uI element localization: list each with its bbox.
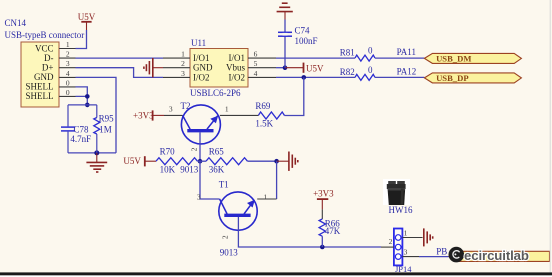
svg-text:2: 2 <box>389 237 393 246</box>
U11 pin stubs left <box>163 58 190 77</box>
svg-text:U5V: U5V <box>306 63 324 73</box>
svg-text:36K: 36K <box>209 164 225 174</box>
svg-text:4: 4 <box>66 69 70 78</box>
svg-text:1: 1 <box>404 228 408 237</box>
svg-text:U5V: U5V <box>78 12 96 22</box>
port USB_DM <box>424 53 521 63</box>
svg-text:C78: C78 <box>74 124 90 134</box>
wire shell RC bottom node <box>68 152 116 154</box>
port PB <box>449 251 550 261</box>
svg-text:+3V3: +3V3 <box>313 189 334 199</box>
IC U11 body <box>190 49 248 88</box>
header JP14 body <box>394 229 403 266</box>
designator T2 <box>181 101 191 111</box>
wire Vbus net <box>276 67 285 69</box>
svg-text:1: 1 <box>181 50 185 59</box>
wire T1 pin3 riser <box>200 161 220 199</box>
watermark logo <box>449 247 465 263</box>
svg-text:2: 2 <box>190 147 199 151</box>
comment USBLC6-2P6 <box>190 88 241 98</box>
svg-text:I/O2: I/O2 <box>229 72 246 82</box>
svg-text:PA12: PA12 <box>397 67 417 77</box>
transistor T2 pin1 stub <box>220 114 258 116</box>
wire GND net <box>76 77 117 152</box>
JP14 pin number 3 <box>404 247 408 256</box>
resistor R81 <box>340 46 375 62</box>
watermark text ecircuitlab <box>464 248 529 263</box>
wire shell RC top node <box>68 104 97 106</box>
ground earth bottom-left <box>86 153 107 172</box>
svg-text:GND: GND <box>193 63 213 73</box>
CN14 pin stubs <box>59 49 76 97</box>
svg-text:100nF: 100nF <box>295 36 318 46</box>
node R66 junction <box>320 245 325 250</box>
ground earth rotated at U11 GND <box>144 58 163 77</box>
svg-text:USB_DM: USB_DM <box>436 53 471 63</box>
wire USB_DP net left <box>276 76 355 78</box>
ground earth rotated right at R65 <box>277 152 298 171</box>
designator CN14 <box>5 18 27 28</box>
U11 pin stubs right <box>248 58 276 77</box>
JP14 pin1 stub <box>402 237 422 239</box>
svg-text:2: 2 <box>221 235 230 239</box>
svg-text:R81: R81 <box>340 48 355 58</box>
svg-text:SHELL: SHELL <box>26 82 54 92</box>
transistor T1 <box>219 192 257 230</box>
svg-text:I/O2: I/O2 <box>193 72 210 82</box>
wire pullup riser <box>285 77 304 115</box>
svg-text:D-: D- <box>44 53 54 63</box>
svg-text:C74: C74 <box>295 25 311 35</box>
wire R66 bottom <box>321 236 323 247</box>
svg-text:1: 1 <box>263 193 267 202</box>
JP14 pin3 stub <box>402 256 419 258</box>
T1 pin number 2 (rotated) <box>221 235 230 239</box>
svg-text:3: 3 <box>181 69 185 78</box>
wire base node to R65 <box>198 160 207 162</box>
port USB_DP <box>424 73 521 83</box>
svg-text:0: 0 <box>368 65 373 75</box>
T1 pin number 3 <box>197 193 201 202</box>
wire D+ net <box>76 68 164 78</box>
svg-text:2: 2 <box>181 59 185 68</box>
svg-text:HW16: HW16 <box>389 205 413 215</box>
svg-text:R69: R69 <box>255 101 271 111</box>
comment 9013 for T2 <box>180 164 199 174</box>
transistor T2 <box>181 105 220 144</box>
comment USB-typeB connector <box>5 30 85 40</box>
designator U11 <box>191 38 206 48</box>
svg-text:I/O1: I/O1 <box>193 53 210 63</box>
wire T1 base run <box>238 217 381 247</box>
JP14 pin2 stub <box>381 246 394 248</box>
svg-text:4.7nF: 4.7nF <box>70 134 91 144</box>
svg-text:9013: 9013 <box>220 248 239 258</box>
svg-text:3: 3 <box>66 59 70 68</box>
designator HW16 <box>389 205 413 215</box>
T2 pin number 3 <box>169 104 173 113</box>
svg-text:R65: R65 <box>209 146 225 156</box>
resistor R65 <box>206 146 247 174</box>
resistor R95 <box>94 105 114 153</box>
svg-text:0: 0 <box>66 88 70 97</box>
svg-text:U11: U11 <box>191 38 206 48</box>
svg-text:1M: 1M <box>99 124 112 134</box>
capacitor C74 <box>278 25 318 46</box>
designator T1 <box>219 180 229 190</box>
svg-text:VCC: VCC <box>35 43 54 53</box>
svg-text:1: 1 <box>66 40 70 49</box>
wire JP14 pin3 net <box>419 256 449 258</box>
T2 pin number 2 (rotated) <box>190 147 199 151</box>
svg-text:6: 6 <box>254 50 258 59</box>
power port +3V3 at T2 <box>133 110 164 120</box>
resistor R82 <box>340 65 375 80</box>
net label PB <box>436 246 447 256</box>
node shell top junction <box>85 103 90 108</box>
svg-text:3: 3 <box>404 247 408 256</box>
svg-text:USB-typeB connector: USB-typeB connector <box>5 30 85 40</box>
wire USB_DM net left <box>276 57 355 59</box>
CN14 pin numbers <box>66 40 70 97</box>
T1 pin number 1 <box>263 193 267 202</box>
resistor R69 <box>255 101 284 128</box>
comment 9013 for T1 <box>220 248 239 258</box>
designator JP14 <box>395 264 412 274</box>
ground earth top (flipped) <box>277 3 293 19</box>
node R65 junction <box>274 159 279 164</box>
wire T2 base <box>199 132 201 161</box>
svg-text:47K: 47K <box>325 226 341 236</box>
svg-text:SHELL: SHELL <box>26 91 54 101</box>
svg-text:4: 4 <box>254 69 258 78</box>
svg-text:I/O1: I/O1 <box>229 53 246 63</box>
svg-text:R95: R95 <box>99 114 115 124</box>
node base junction <box>198 159 203 164</box>
wire C74 branch <box>284 20 286 68</box>
power port U5V bottom <box>123 156 156 167</box>
svg-text:R70: R70 <box>160 146 176 156</box>
svg-text:5: 5 <box>254 59 258 68</box>
node D+ pullup junction <box>302 75 307 80</box>
svg-text:ecircuitlab: ecircuitlab <box>464 248 529 263</box>
transistor T1 pin1 stub <box>257 198 276 200</box>
svg-text:PB: PB <box>436 246 447 256</box>
svg-text:2: 2 <box>66 50 70 59</box>
svg-text:Vbus: Vbus <box>226 63 245 73</box>
JP14 pin number 2 <box>389 237 393 246</box>
resistor R66 <box>319 218 341 236</box>
resistor R70 <box>156 146 197 174</box>
svg-text:GND: GND <box>34 72 54 82</box>
jumper image HW16 <box>383 179 410 205</box>
svg-text:10K: 10K <box>160 164 176 174</box>
JP14 pin number 1 <box>404 228 408 237</box>
svg-text:T1: T1 <box>219 180 229 190</box>
svg-text:U5V: U5V <box>123 156 141 166</box>
svg-text:9013: 9013 <box>180 164 199 174</box>
power port U5V at Vbus <box>285 63 324 74</box>
power port U5V top <box>78 12 96 30</box>
svg-text:+3V3: +3V3 <box>133 110 154 120</box>
wire shell net <box>76 87 88 105</box>
svg-text:0: 0 <box>368 46 373 56</box>
svg-text:D+: D+ <box>42 63 54 73</box>
wire USB_DM net right <box>375 57 424 59</box>
net label PA12 <box>397 67 417 77</box>
transistor T2 pin3 stub <box>164 114 183 116</box>
wire VCC net <box>76 30 87 49</box>
net label PA11 <box>397 47 416 57</box>
node RC bottom junction <box>94 150 99 155</box>
svg-text:PA11: PA11 <box>397 47 416 57</box>
ground earth rotated right at JP14 pin1 <box>424 228 433 246</box>
svg-text:USB_DP: USB_DP <box>436 73 468 83</box>
svg-text:R82: R82 <box>340 67 355 77</box>
U11 pin numbers right 6 5 4 <box>254 50 258 78</box>
node Vbus junction <box>283 65 288 70</box>
U11 pin numbers left 1 2 3 <box>181 50 185 78</box>
power port +3V3 at R66 <box>313 189 334 219</box>
svg-text:1: 1 <box>225 104 229 113</box>
wire T1 collector riser <box>276 161 278 199</box>
wire USB_DP net right <box>375 76 424 78</box>
wire D- net <box>76 57 164 59</box>
capacitor C78 <box>61 105 91 153</box>
svg-text:CN14: CN14 <box>5 18 27 28</box>
connector CN14 body <box>21 42 59 107</box>
svg-text:3: 3 <box>197 193 201 202</box>
svg-text:3: 3 <box>169 104 173 113</box>
svg-text:USBLC6-2P6: USBLC6-2P6 <box>190 88 241 98</box>
svg-text:0: 0 <box>66 78 70 87</box>
svg-text:1.5K: 1.5K <box>255 118 273 128</box>
node shell junction <box>85 94 90 99</box>
wire R65 to ground <box>248 160 277 162</box>
T2 pin number 1 <box>225 104 229 113</box>
